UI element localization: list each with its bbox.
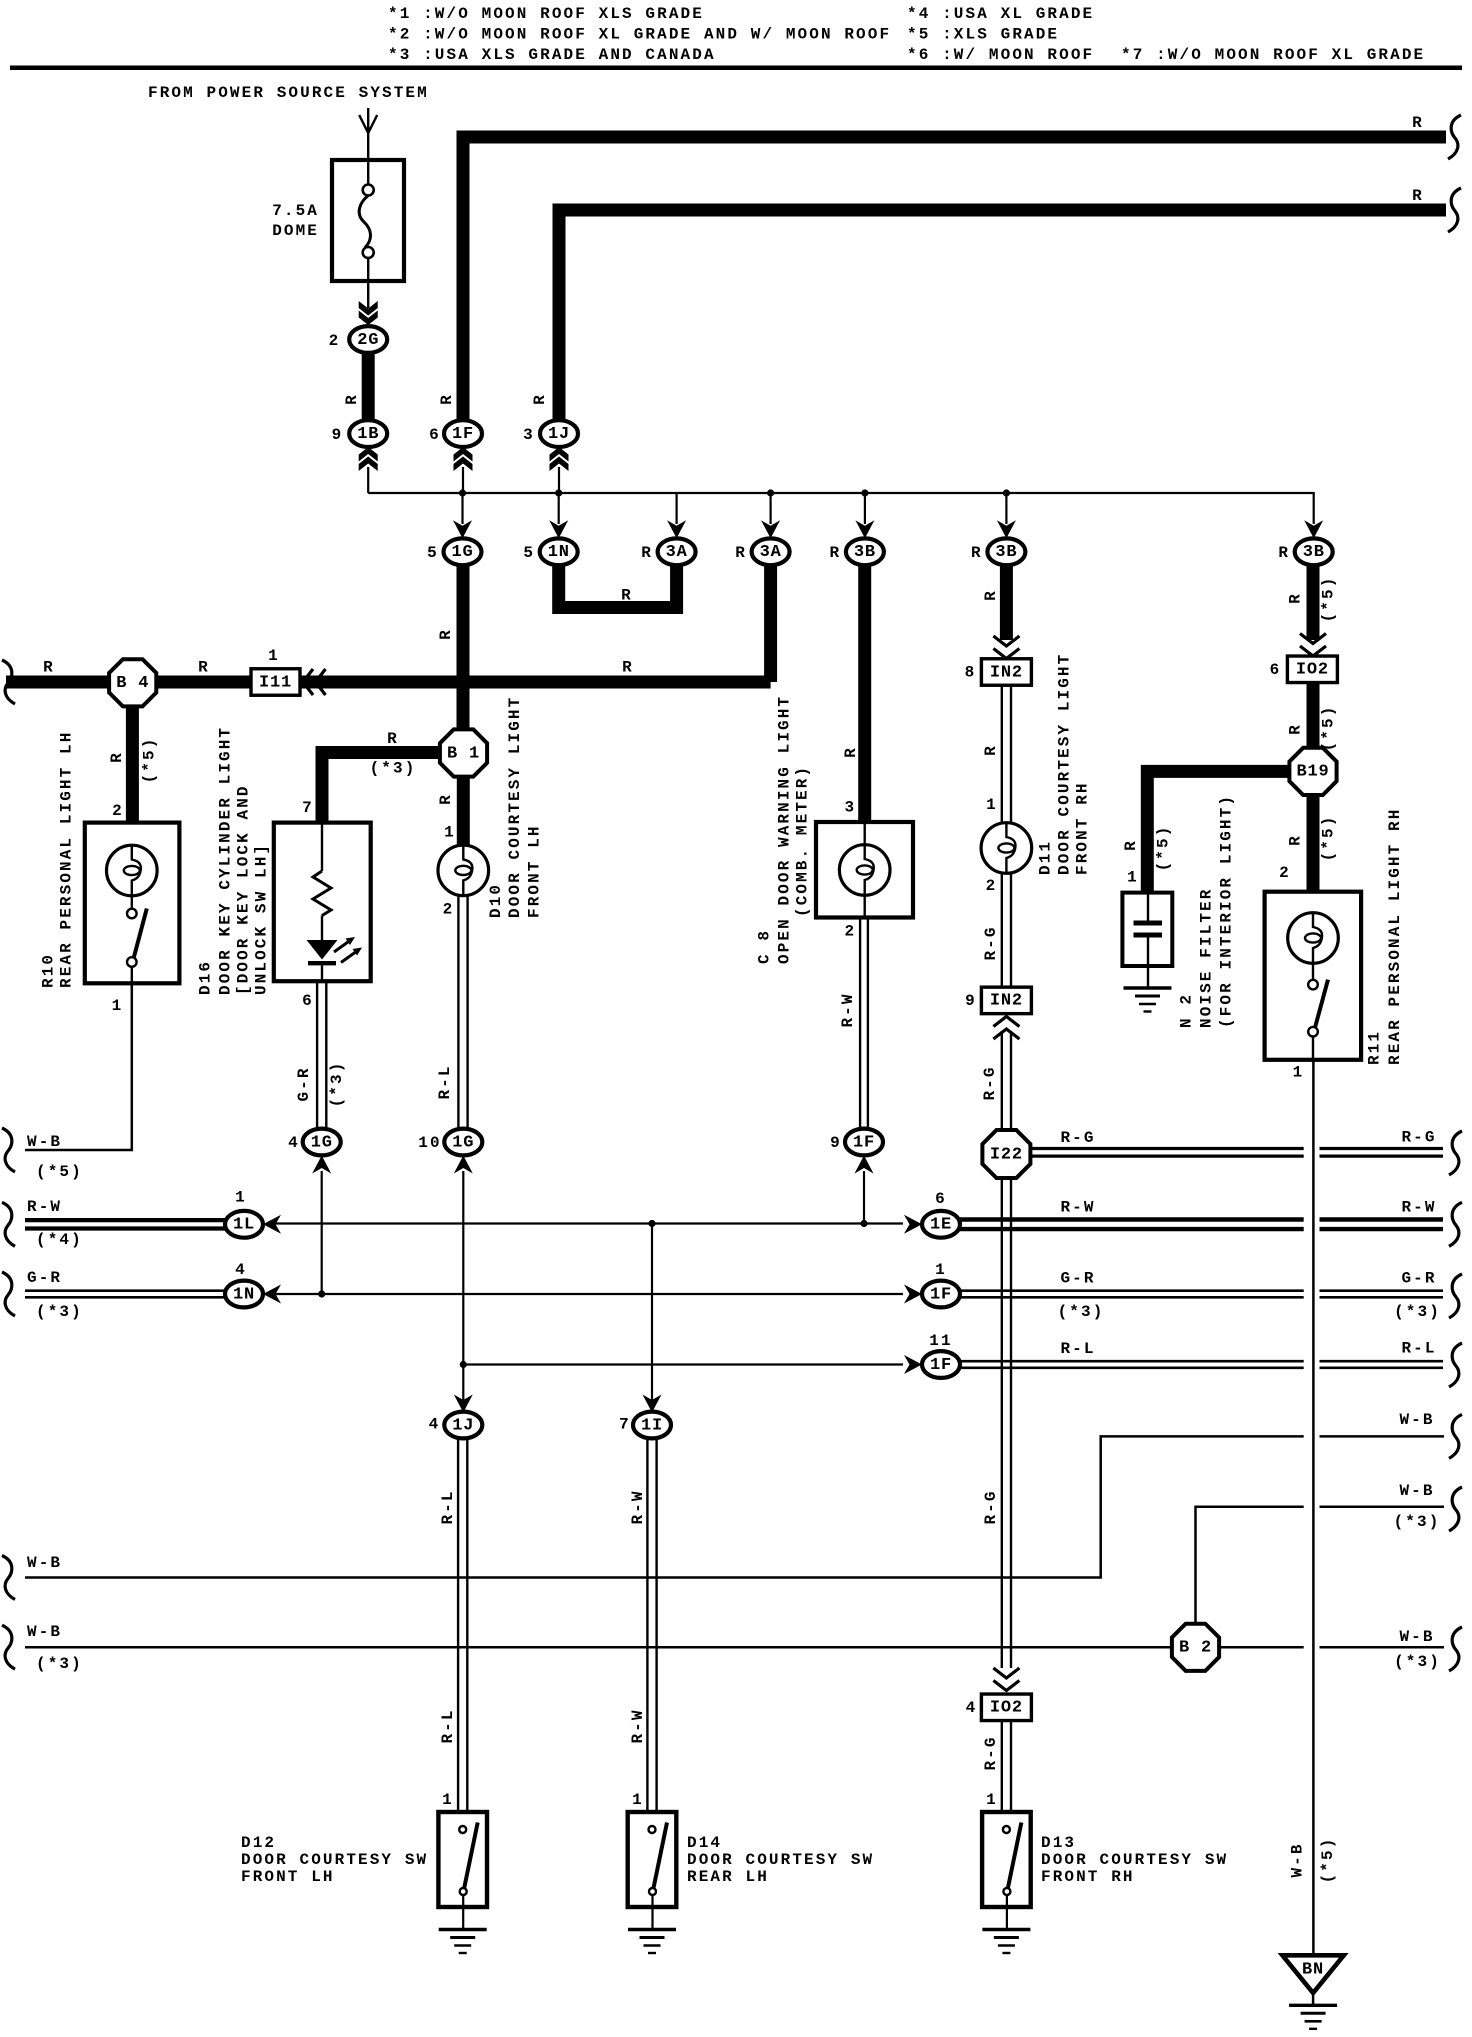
frayed end R top 2 [1448, 188, 1461, 232]
connector 1B [349, 420, 387, 447]
junction dot x462.5 [459, 489, 466, 496]
connector 3B x1006.4 [987, 538, 1025, 565]
svg-text:R: R [43, 659, 55, 677]
connector I11 [251, 669, 300, 696]
svg-text:1: 1 [444, 824, 456, 842]
svg-text:W-B: W-B [1399, 1628, 1434, 1646]
wire W-B R11-BN [1312, 1060, 1315, 1956]
svg-text:W-B: W-B [1289, 1842, 1307, 1877]
svg-text:D12: D12 [241, 1834, 276, 1852]
svg-text:D11: D11 [1036, 840, 1054, 875]
svg-text:8: 8 [965, 664, 977, 682]
wire R 3B2-IN2 [1000, 564, 1013, 640]
wire R top 2 [559, 210, 1446, 422]
svg-text:R: R [1287, 592, 1305, 604]
svg-text:I11: I11 [259, 673, 292, 692]
arrows below IN2 9 [993, 1017, 1019, 1027]
connector IO2 pin4 [981, 1694, 1031, 1721]
bulb R10 [107, 845, 158, 896]
svg-text:R: R [622, 659, 634, 677]
wire W-B row2 [25, 1646, 1304, 1649]
arrow into 3B x1006.4 [997, 520, 1016, 538]
frayed end W-B row2 left [2, 1625, 15, 1669]
svg-text:OPEN DOOR WARNING LIGHT: OPEN DOOR WARNING LIGHT [775, 695, 793, 964]
wire 1B down [367, 467, 369, 493]
arrow into 3A x676.6 [667, 520, 686, 538]
svg-text:1: 1 [268, 647, 280, 665]
component N2 box [1122, 893, 1172, 966]
arrow into 2G [359, 311, 378, 326]
svg-text:REAR PERSONAL LIGHT LH: REAR PERSONAL LIGHT LH [58, 731, 76, 988]
svg-text:1E: 1E [930, 1216, 952, 1235]
svg-text:9: 9 [965, 992, 977, 1010]
svg-text:1: 1 [632, 1791, 644, 1809]
arrow below 1B [359, 447, 378, 462]
connector 3B x864.9 [846, 538, 884, 565]
connector 1F [444, 420, 482, 447]
svg-text:R: R [1287, 723, 1305, 735]
svg-text:R: R [830, 544, 842, 562]
ground BN [1289, 2004, 1337, 2007]
svg-text:5: 5 [523, 544, 535, 562]
svg-text:DOOR COURTESY SW: DOOR COURTESY SW [687, 1851, 874, 1869]
wire R-W C8-1F [859, 918, 861, 1130]
wire R-G I22 down [1001, 1179, 1003, 1668]
wire R-G IN2-I22 [1001, 1031, 1003, 1129]
svg-text:*2 :W/O MOON ROOF XL GRADE AND: *2 :W/O MOON ROOF XL GRADE AND W/ MOON R… [388, 26, 891, 44]
connector 3A x676.6 [658, 538, 696, 565]
svg-text:[DOOR KEY LOCK AND: [DOOR KEY LOCK AND [235, 784, 253, 995]
svg-text:B 1: B 1 [447, 744, 480, 763]
arrows I11 [303, 669, 313, 695]
svg-text:R11: R11 [1366, 1030, 1384, 1065]
switch R10 [131, 896, 133, 909]
connector 1N x558.7 [540, 538, 578, 565]
frayed end R-L right [1449, 1343, 1462, 1387]
svg-text:1: 1 [986, 796, 998, 814]
wire G-R D16-1G [316, 981, 318, 1129]
wire drop x864.9 [864, 493, 866, 524]
svg-text:1: 1 [235, 1189, 247, 1207]
connector IO2 pin6 [1287, 656, 1337, 683]
fuse F1 box [332, 160, 404, 281]
connector 1G pin10 [444, 1129, 482, 1156]
switch R11 [1312, 963, 1314, 980]
svg-text:3B: 3B [1303, 543, 1325, 562]
bulb R11 [1288, 913, 1339, 964]
svg-text:R-G: R-G [1401, 1129, 1436, 1147]
wire R B1-D10 [457, 776, 470, 847]
junction dot x558.7 [555, 489, 562, 496]
arrow below 1G10 [454, 1156, 473, 1174]
svg-text:*1 :W/O MOON ROOF XLS GRADE: *1 :W/O MOON ROOF XLS GRADE [388, 5, 704, 23]
svg-text:(*3): (*3) [1394, 1513, 1441, 1531]
svg-text:R: R [982, 589, 1000, 601]
switch D14 [628, 1812, 677, 1907]
wire R 3A2 to bus [764, 564, 777, 682]
connector 1N [225, 1281, 263, 1308]
connector 1F pin1 [922, 1281, 960, 1308]
wire R-L right pair [959, 1360, 1304, 1363]
frayed end R-W right [1449, 1202, 1462, 1246]
junction dot R-L [460, 1361, 467, 1368]
svg-text:D14: D14 [687, 1834, 722, 1852]
svg-text:6: 6 [935, 1190, 947, 1208]
svg-text:DOOR COURTESY SW: DOOR COURTESY SW [1041, 1851, 1228, 1869]
arrow into 1J [454, 1395, 473, 1413]
wire main R bus [6, 676, 771, 689]
svg-text:W-B: W-B [1399, 1411, 1434, 1429]
arrow into 1F mid [904, 1285, 922, 1304]
frayed end R top 1 [1448, 115, 1461, 159]
svg-text:R: R [1412, 114, 1424, 132]
svg-text:R-L: R-L [439, 1489, 457, 1524]
svg-text:B 2: B 2 [1179, 1639, 1212, 1658]
svg-text:R: R [438, 393, 456, 405]
svg-text:1N: 1N [548, 543, 570, 562]
svg-text:(*5): (*5) [1319, 815, 1337, 862]
connector 2G [349, 326, 387, 353]
arrow into 1G x462.5 [453, 520, 472, 538]
svg-text:DOOR COURTESY SW: DOOR COURTESY SW [241, 1851, 428, 1869]
arrows into IO2 6 [1300, 634, 1326, 644]
switch D13 [982, 1812, 1031, 1907]
arrow into 3B x864.9 [855, 520, 874, 538]
svg-text:2: 2 [844, 923, 856, 941]
wire R10 to W-B [25, 983, 132, 1150]
svg-text:6: 6 [1270, 661, 1282, 679]
svg-text:*5 :XLS GRADE: *5 :XLS GRADE [907, 26, 1059, 44]
wire drop x770.6 [769, 493, 771, 524]
svg-text:W-B: W-B [1399, 1482, 1434, 1500]
arrow below 1F9 [855, 1156, 874, 1174]
svg-text:10: 10 [418, 1134, 441, 1152]
wire R-W left pair [25, 1218, 226, 1222]
svg-text:R-W: R-W [629, 1489, 647, 1524]
svg-text:(*3): (*3) [370, 760, 417, 778]
frayed end W-B right3 [1449, 1627, 1462, 1671]
svg-text:6: 6 [302, 992, 314, 1010]
arrow into 1I [643, 1395, 662, 1413]
svg-text:R: R [437, 793, 455, 805]
svg-text:DOOR COURTESY LIGHT: DOOR COURTESY LIGHT [1056, 653, 1074, 875]
svg-text:R-G: R-G [982, 925, 1000, 960]
svg-text:G-R: G-R [1401, 1270, 1436, 1288]
wire R B4-R10 [126, 706, 139, 823]
arrow below 1G4 [312, 1156, 331, 1174]
wire drop x1006.4 [1005, 493, 1007, 524]
connector 1L [225, 1211, 263, 1238]
svg-text:W-B: W-B [27, 1133, 62, 1151]
connector 1G x462.5 [444, 538, 482, 565]
junction dot x864.9 [861, 489, 868, 496]
frayed end G-R right [1449, 1274, 1462, 1318]
svg-text:W-B: W-B [27, 1554, 62, 1572]
svg-text:B19: B19 [1296, 763, 1329, 782]
arrow into 1E [904, 1215, 922, 1234]
connector IN2 pin8 [981, 659, 1031, 686]
svg-text:(*5): (*5) [36, 1163, 83, 1181]
svg-text:G-R: G-R [295, 1066, 313, 1101]
svg-text:R-W: R-W [629, 1708, 647, 1743]
svg-text:1J: 1J [452, 1416, 474, 1435]
component R10 box [85, 823, 180, 984]
wire R top 1 [463, 137, 1446, 422]
wire B2 up [1196, 1507, 1304, 1623]
ground N2 [1124, 986, 1172, 989]
bulb D11 [981, 823, 1032, 874]
svg-text:I22: I22 [990, 1145, 1023, 1164]
frayed end W-B right1 [1449, 1414, 1462, 1458]
svg-text:REAR PERSONAL LIGHT RH: REAR PERSONAL LIGHT RH [1386, 808, 1404, 1065]
svg-text:4: 4 [235, 1261, 247, 1279]
frayed end W-B row1 left [2, 1556, 15, 1600]
svg-text:R-L: R-L [436, 1064, 454, 1099]
svg-text:REAR LH: REAR LH [687, 1868, 769, 1886]
svg-text:1N: 1N [233, 1285, 255, 1304]
svg-text:R: R [1412, 187, 1424, 205]
splice B 2 [1172, 1624, 1219, 1671]
connector 3A x770.6 [752, 538, 790, 565]
svg-text:1: 1 [1293, 1064, 1305, 1082]
arrow into 3B x1313.7 [1304, 520, 1323, 538]
svg-text:3: 3 [844, 799, 856, 817]
svg-text:3B: 3B [995, 543, 1017, 562]
connector 3B x1313.7 [1295, 538, 1333, 565]
ground D13 [982, 1928, 1030, 1931]
wire R-W 1I-D14 [646, 1438, 648, 1812]
wire 1I feed [651, 1224, 653, 1414]
svg-text:D16: D16 [197, 960, 215, 995]
splice B 1 [440, 729, 487, 776]
connector 1F pin9 [845, 1129, 883, 1156]
wire 1J down [558, 467, 560, 493]
arrow into 1N x558.7 [549, 520, 568, 538]
svg-text:1G: 1G [451, 543, 473, 562]
svg-text:C 8: C 8 [756, 929, 774, 964]
wire R IN2-D11 [1001, 686, 1003, 825]
svg-text:FRONT LH: FRONT LH [525, 824, 543, 918]
ground point BN [1282, 1955, 1343, 1993]
svg-text:FROM POWER SOURCE SYSTEM: FROM POWER SOURCE SYSTEM [148, 84, 429, 102]
arrow feed V [359, 115, 377, 133]
capacitor N2 [1147, 894, 1149, 921]
wire drop x676.6 [675, 493, 677, 524]
svg-text:W-B: W-B [27, 1623, 62, 1641]
svg-text:1J: 1J [548, 425, 570, 444]
svg-text:R-W: R-W [839, 992, 857, 1027]
svg-text:R-W: R-W [1401, 1199, 1436, 1217]
svg-text:DOOR KEY CYLINDER LIGHT: DOOR KEY CYLINDER LIGHT [216, 726, 234, 995]
frayed end W-B R10 [2, 1128, 15, 1172]
component R11 box [1265, 892, 1362, 1060]
svg-text:1G: 1G [311, 1133, 333, 1152]
bulb D10 [438, 845, 489, 896]
svg-text:2: 2 [1279, 864, 1291, 882]
svg-text:UNLOCK SW LH]: UNLOCK SW LH] [253, 843, 271, 995]
wire 1G4 to G-R line [321, 1171, 323, 1294]
svg-text:(FOR INTERIOR LIGHT): (FOR INTERIOR LIGHT) [1217, 794, 1235, 1028]
junction dot x770.6 [767, 489, 774, 496]
wire R 1N-3A loop [559, 564, 677, 608]
svg-text:4: 4 [429, 1416, 441, 1434]
wire drop x558.7 [558, 493, 560, 524]
svg-text:(*5): (*5) [1319, 576, 1337, 623]
svg-text:2: 2 [112, 802, 124, 820]
svg-text:9: 9 [830, 1134, 842, 1152]
svg-text:(*3): (*3) [1394, 1303, 1441, 1321]
svg-text:IO2: IO2 [990, 1699, 1023, 1718]
wire R B19-R11 [1307, 795, 1320, 892]
svg-text:R: R [387, 730, 399, 748]
frayed end R-W left [2, 1202, 15, 1246]
svg-text:2: 2 [986, 877, 998, 895]
svg-text:(*3): (*3) [328, 1061, 346, 1108]
svg-text:B 4: B 4 [116, 674, 149, 693]
wire R IO2-B19 [1307, 683, 1320, 749]
wire junction bus [368, 493, 1313, 524]
svg-text:(*5): (*5) [1155, 825, 1173, 872]
wire R-L mid [463, 1363, 903, 1365]
svg-text:1B: 1B [357, 425, 379, 444]
wire R-L D10-1G [457, 896, 459, 1130]
wire BN to ground [1312, 1993, 1315, 2005]
svg-text:7: 7 [619, 1416, 631, 1434]
svg-text:3A: 3A [760, 543, 782, 562]
arrow into 1F rl [904, 1355, 922, 1374]
arrow into 1N [263, 1285, 281, 1304]
svg-text:FRONT RH: FRONT RH [1041, 1868, 1135, 1886]
svg-text:1: 1 [442, 1791, 454, 1809]
svg-text:5: 5 [427, 544, 439, 562]
svg-text:(*3): (*3) [36, 1303, 83, 1321]
wire 1F9 down [863, 1171, 865, 1224]
wire R-L 1J-D12 [457, 1438, 459, 1812]
splice B 4 [109, 659, 156, 706]
svg-text:R: R [842, 746, 860, 758]
svg-text:9: 9 [332, 426, 344, 444]
wire power feed [367, 108, 369, 184]
svg-text:IN2: IN2 [990, 992, 1023, 1011]
led D16 [321, 916, 323, 941]
svg-text:1: 1 [112, 997, 124, 1015]
wire R B19-N2 [1147, 771, 1290, 892]
svg-text:3: 3 [523, 426, 535, 444]
svg-text:R-L: R-L [439, 1708, 457, 1743]
svg-text:4: 4 [966, 1699, 978, 1717]
frayed end W-B right2 [1449, 1487, 1462, 1531]
svg-text:R: R [437, 628, 455, 640]
arrows into IN2 8 [993, 636, 1019, 646]
wire R B1-D16 [322, 753, 441, 824]
ground D12 [439, 1928, 487, 1931]
svg-text:1F: 1F [930, 1356, 952, 1375]
connector IN2 pin9 [981, 987, 1031, 1014]
svg-text:R: R [982, 744, 1000, 756]
svg-text:3B: 3B [854, 543, 876, 562]
svg-text:(*4): (*4) [36, 1231, 83, 1249]
svg-text:R: R [735, 544, 747, 562]
svg-text:R: R [641, 544, 653, 562]
svg-text:2: 2 [329, 332, 341, 350]
svg-text:R: R [531, 393, 549, 405]
ground D14 [628, 1928, 676, 1931]
svg-text:(*5): (*5) [1319, 705, 1337, 752]
svg-text:R: R [971, 544, 983, 562]
svg-text:1F: 1F [452, 425, 474, 444]
wire 1G10 down [462, 1171, 464, 1413]
arrows into IO2 4 [993, 1668, 1019, 1678]
svg-text:DOME: DOME [272, 222, 319, 240]
svg-text:G-R: G-R [1060, 1270, 1095, 1288]
svg-text:*6 :W/ MOON ROOF: *6 :W/ MOON ROOF [907, 46, 1094, 64]
svg-text:(*5): (*5) [141, 737, 159, 784]
connector 1I sw [633, 1412, 671, 1439]
svg-text:1I: 1I [641, 1416, 663, 1435]
svg-text:R-G: R-G [982, 1489, 1000, 1524]
switch D12 [438, 1812, 487, 1907]
wire 1F down [462, 467, 464, 493]
svg-text:R: R [1278, 544, 1290, 562]
svg-text:D10: D10 [487, 883, 505, 918]
svg-text:1: 1 [935, 1261, 947, 1279]
svg-text:*7 :W/O MOON ROOF XL GRADE: *7 :W/O MOON ROOF XL GRADE [1121, 46, 1425, 64]
svg-text:(*3): (*3) [1394, 1653, 1441, 1671]
bulb C8 [864, 824, 866, 846]
connector 1E [922, 1211, 960, 1238]
svg-text:FRONT RH: FRONT RH [1074, 781, 1092, 875]
frayed end G-R left [2, 1272, 15, 1316]
svg-text:NOISE FILTER: NOISE FILTER [1198, 888, 1216, 1028]
svg-text:2: 2 [443, 901, 455, 919]
svg-text:1G: 1G [452, 1133, 474, 1152]
svg-text:1: 1 [986, 1791, 998, 1809]
wire G-R left pair [25, 1289, 226, 1292]
svg-text:R: R [343, 393, 361, 405]
svg-text:1: 1 [1127, 869, 1139, 887]
connector 1J [540, 420, 578, 447]
svg-text:R: R [1287, 834, 1305, 846]
svg-text:*3 :USA XLS GRADE AND CANADA: *3 :USA XLS GRADE AND CANADA [388, 46, 716, 64]
wire R-W right pair [959, 1217, 1304, 1221]
svg-text:G-R: G-R [27, 1269, 62, 1287]
wire R 2G-1B [362, 351, 375, 422]
wire R 3B3-IO2 [1307, 564, 1320, 640]
svg-text:R-L: R-L [1060, 1340, 1095, 1358]
arrow below 1J [550, 447, 569, 462]
junction dot x1006.4 [1003, 489, 1010, 496]
wire R-G row [1031, 1147, 1304, 1150]
svg-text:6: 6 [429, 426, 441, 444]
component D16 box [274, 823, 371, 982]
wire drop x462.5 [461, 493, 463, 524]
svg-text:2G: 2G [357, 331, 379, 350]
led arrows D16 [334, 941, 350, 953]
svg-text:R: R [621, 587, 633, 605]
svg-text:1F: 1F [853, 1133, 875, 1152]
svg-text:FRONT LH: FRONT LH [241, 1868, 335, 1886]
component C8 box [816, 822, 913, 918]
svg-text:*4 :USA XL GRADE: *4 :USA XL GRADE [907, 5, 1094, 23]
svg-text:3A: 3A [666, 543, 688, 562]
svg-text:IN2: IN2 [990, 663, 1023, 682]
svg-text:11: 11 [929, 1332, 952, 1350]
junction dot R-W mid [860, 1220, 867, 1227]
svg-text:(COMB. METER): (COMB. METER) [794, 765, 812, 917]
connector 1G pin4 [303, 1129, 341, 1156]
resistor D16 [321, 824, 323, 871]
svg-text:R: R [198, 659, 210, 677]
